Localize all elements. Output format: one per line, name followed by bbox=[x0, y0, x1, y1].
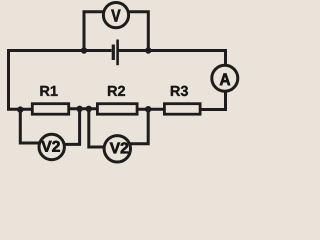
resistor R3 box bbox=[164, 104, 200, 115]
label V2 (meter across R2) bbox=[110, 143, 120, 154]
wire: top-right segment + right vertical down to ammeter bbox=[119, 51, 226, 66]
wire: voltmeter V2a left branch bbox=[20, 110, 41, 143]
wire: voltmeter V branch left riser bbox=[84, 12, 104, 51]
label V2 (meter across R1) bbox=[41, 141, 51, 152]
voltmeter V2a circle (across R1) bbox=[39, 134, 64, 159]
battery cell: long plate bbox=[116, 40, 119, 66]
label A (ammeter) bbox=[220, 73, 230, 85]
wire: voltmeter V2a right branch bbox=[64, 110, 80, 144]
ammeter A circle bbox=[212, 65, 238, 91]
resistor R2 box bbox=[97, 104, 137, 115]
junction dot: row left (V2a tap) bbox=[17, 106, 23, 112]
wire: voltmeter V2b right branch bbox=[130, 110, 148, 144]
resistor R1 box bbox=[32, 104, 68, 115]
label V (voltmeter) bbox=[111, 10, 120, 22]
junction dot: top wire right bbox=[145, 47, 151, 53]
junction dot: right of R2 bbox=[145, 106, 151, 112]
junction dot: top wire left bbox=[81, 47, 87, 53]
wire: ammeter bottom to R3 right terminal bbox=[200, 92, 226, 110]
wire: between R1 and R2 bbox=[70, 107, 98, 110]
voltmeter V circle bbox=[103, 3, 128, 28]
junction dot: left of R2 bbox=[86, 106, 92, 112]
wire: between R2 and R3 bbox=[138, 108, 164, 111]
label R3 bbox=[171, 86, 180, 96]
wire: voltmeter V2b left branch bbox=[89, 110, 106, 147]
voltmeter V2b circle (across R2) bbox=[104, 136, 130, 162]
junction dot: right of R1 bbox=[76, 106, 82, 112]
wire: voltmeter V branch right riser bbox=[129, 12, 148, 51]
battery cell: short plate bbox=[112, 45, 115, 61]
label R2 bbox=[108, 86, 117, 96]
wire: top-left segment + left vertical + lead into R1 bbox=[9, 51, 112, 110]
label R1 bbox=[40, 86, 49, 96]
